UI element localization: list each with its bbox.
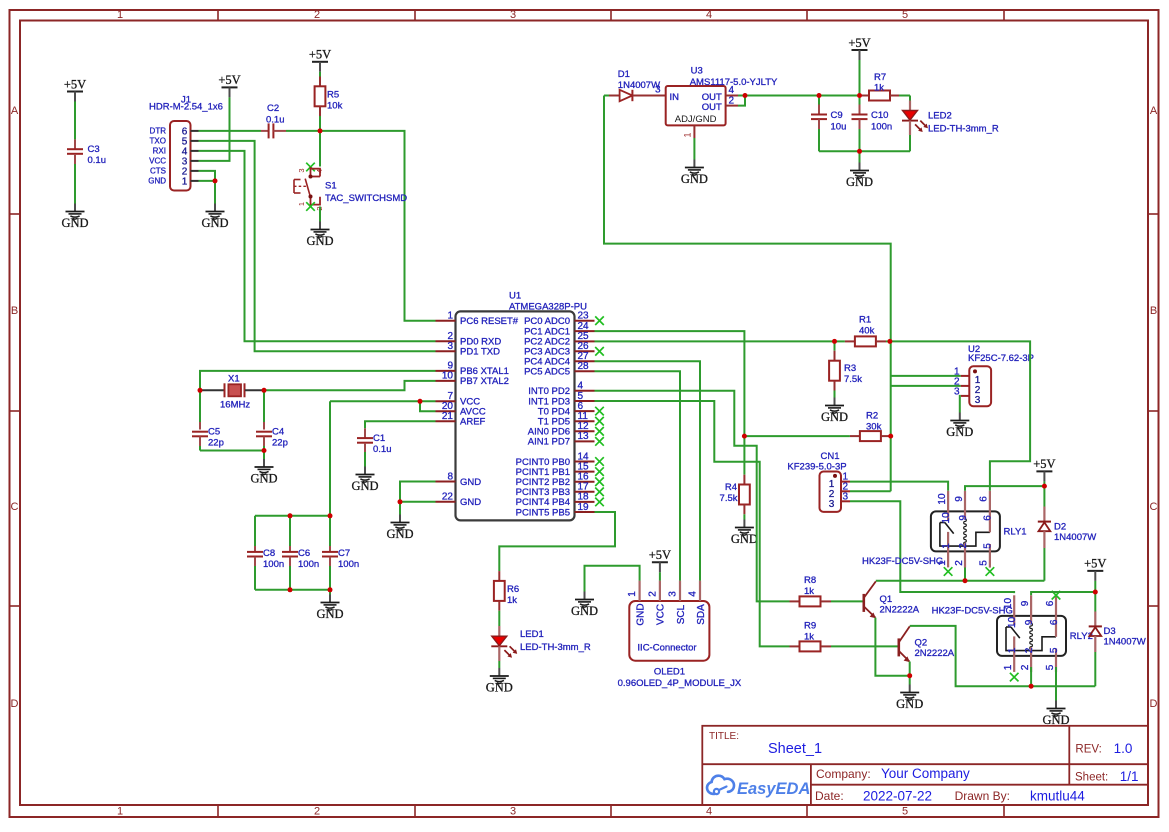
svg-text:3: 3 bbox=[843, 491, 849, 502]
svg-text:D1: D1 bbox=[618, 69, 630, 80]
svg-text:PC6 RESET#: PC6 RESET# bbox=[460, 316, 519, 327]
svg-text:19: 19 bbox=[578, 502, 590, 513]
svg-text:PC0 ADC0: PC0 ADC0 bbox=[524, 316, 570, 327]
svg-text:TITLE:: TITLE: bbox=[709, 731, 739, 742]
svg-text:R9: R9 bbox=[804, 621, 816, 632]
svg-text:3: 3 bbox=[975, 395, 981, 406]
svg-text:HDR-M-2.54_1x6: HDR-M-2.54_1x6 bbox=[149, 102, 223, 113]
svg-text:23: 23 bbox=[578, 311, 590, 322]
svg-text:6: 6 bbox=[979, 496, 990, 502]
svg-text:30k: 30k bbox=[866, 422, 882, 433]
svg-text:9: 9 bbox=[1024, 619, 1035, 625]
svg-text:C3: C3 bbox=[88, 144, 100, 155]
svg-text:IN: IN bbox=[670, 92, 680, 103]
svg-text:2N2222A: 2N2222A bbox=[880, 605, 920, 616]
svg-text:2022-07-22: 2022-07-22 bbox=[863, 789, 932, 804]
svg-text:6: 6 bbox=[1045, 600, 1056, 606]
svg-text:10k: 10k bbox=[327, 101, 343, 112]
svg-text:1: 1 bbox=[297, 202, 306, 206]
svg-text:IIC-Connector: IIC-Connector bbox=[637, 643, 696, 654]
svg-text:5: 5 bbox=[983, 543, 994, 549]
svg-text:ADJ/GND: ADJ/GND bbox=[675, 114, 717, 125]
svg-text:3: 3 bbox=[447, 341, 453, 352]
svg-text:C2: C2 bbox=[267, 103, 279, 114]
svg-text:3: 3 bbox=[667, 591, 678, 597]
svg-text:C4: C4 bbox=[272, 427, 284, 438]
svg-text:HK23F-DC5V-SHG: HK23F-DC5V-SHG bbox=[862, 556, 943, 567]
svg-text:9: 9 bbox=[958, 515, 969, 521]
svg-text:1.0: 1.0 bbox=[1114, 741, 1133, 756]
svg-text:5: 5 bbox=[902, 9, 908, 21]
svg-text:+5V: +5V bbox=[1084, 557, 1106, 571]
svg-text:DTR: DTR bbox=[150, 127, 167, 136]
svg-text:CTS: CTS bbox=[150, 167, 166, 176]
svg-text:Sheet:: Sheet: bbox=[1075, 772, 1108, 784]
svg-text:GND: GND bbox=[571, 604, 598, 618]
svg-text:Date:: Date: bbox=[815, 789, 844, 803]
svg-text:R8: R8 bbox=[804, 575, 816, 586]
svg-text:1: 1 bbox=[182, 176, 188, 187]
svg-text:2: 2 bbox=[958, 543, 969, 549]
svg-text:1: 1 bbox=[1003, 664, 1014, 670]
svg-text:LED1: LED1 bbox=[520, 629, 544, 640]
svg-text:C: C bbox=[1150, 501, 1158, 513]
svg-text:HK23F-DC5V-SHG: HK23F-DC5V-SHG bbox=[932, 606, 1013, 617]
svg-text:4: 4 bbox=[687, 591, 698, 597]
svg-text:PB7 XTAL2: PB7 XTAL2 bbox=[460, 376, 509, 387]
svg-text:5: 5 bbox=[1045, 664, 1056, 670]
svg-text:3: 3 bbox=[655, 85, 661, 96]
svg-text:U1: U1 bbox=[509, 291, 521, 302]
svg-text:2N2222A: 2N2222A bbox=[915, 648, 955, 659]
svg-text:0.1u: 0.1u bbox=[373, 444, 392, 455]
svg-text:1: 1 bbox=[941, 543, 952, 549]
svg-text:S1: S1 bbox=[325, 181, 337, 192]
svg-text:GND: GND bbox=[681, 172, 708, 186]
svg-text:100n: 100n bbox=[263, 559, 284, 570]
svg-text:1k: 1k bbox=[507, 595, 517, 606]
svg-text:+5V: +5V bbox=[1033, 457, 1055, 471]
svg-text:SDA: SDA bbox=[696, 604, 707, 625]
svg-text:9: 9 bbox=[1020, 600, 1031, 606]
svg-text:OUT: OUT bbox=[702, 102, 722, 113]
svg-text:REV:: REV: bbox=[1075, 744, 1101, 756]
svg-text:4: 4 bbox=[315, 169, 324, 173]
svg-text:10: 10 bbox=[937, 493, 948, 505]
svg-text:VCC: VCC bbox=[656, 604, 667, 625]
svg-text:R6: R6 bbox=[507, 584, 519, 595]
svg-text:100n: 100n bbox=[338, 559, 359, 570]
svg-text:Drawn By:: Drawn By: bbox=[955, 789, 1010, 803]
svg-text:1k: 1k bbox=[874, 83, 884, 94]
svg-text:+5V: +5V bbox=[64, 77, 86, 91]
svg-text:5: 5 bbox=[902, 806, 908, 818]
svg-text:28: 28 bbox=[578, 361, 590, 372]
svg-text:OLED1: OLED1 bbox=[654, 667, 685, 678]
svg-text:6: 6 bbox=[983, 515, 994, 521]
svg-text:GND: GND bbox=[460, 497, 481, 508]
svg-text:5: 5 bbox=[1049, 647, 1060, 653]
svg-text:R4: R4 bbox=[725, 482, 737, 493]
svg-text:10: 10 bbox=[442, 371, 454, 382]
svg-text:0.1u: 0.1u bbox=[88, 155, 107, 166]
svg-text:1N4007W: 1N4007W bbox=[618, 80, 660, 91]
svg-text:Company:: Company: bbox=[816, 767, 871, 781]
svg-text:10: 10 bbox=[941, 512, 952, 524]
svg-text:100n: 100n bbox=[298, 559, 319, 570]
svg-text:C5: C5 bbox=[208, 427, 220, 438]
svg-text:GND: GND bbox=[731, 532, 758, 546]
svg-text:TAC_SWITCHSMD: TAC_SWITCHSMD bbox=[325, 193, 407, 204]
svg-text:AIN1 PD7: AIN1 PD7 bbox=[528, 437, 570, 448]
svg-text:A: A bbox=[11, 105, 19, 117]
svg-text:GND: GND bbox=[148, 177, 166, 186]
svg-text:TXO: TXO bbox=[150, 137, 166, 146]
svg-text:D2: D2 bbox=[1054, 522, 1066, 533]
svg-text:+5V: +5V bbox=[649, 548, 671, 562]
svg-text:EasyEDA: EasyEDA bbox=[737, 780, 810, 798]
svg-text:C6: C6 bbox=[298, 548, 310, 559]
svg-text:100n: 100n bbox=[871, 122, 892, 133]
svg-text:1: 1 bbox=[117, 806, 123, 818]
svg-text:1: 1 bbox=[627, 591, 638, 597]
svg-text:KF239-5.0-3P: KF239-5.0-3P bbox=[787, 461, 846, 472]
svg-text:GND: GND bbox=[896, 697, 923, 711]
svg-text:Your Company: Your Company bbox=[881, 766, 970, 781]
svg-text:C9: C9 bbox=[831, 110, 843, 121]
svg-text:21: 21 bbox=[442, 411, 454, 422]
svg-text:4: 4 bbox=[706, 9, 712, 21]
svg-text:2: 2 bbox=[1024, 647, 1035, 653]
svg-text:U3: U3 bbox=[691, 66, 703, 77]
svg-text:2: 2 bbox=[647, 591, 658, 597]
svg-text:PC5 ADC5: PC5 ADC5 bbox=[524, 367, 570, 378]
svg-text:+5V: +5V bbox=[309, 48, 331, 62]
svg-text:1k: 1k bbox=[804, 632, 814, 643]
svg-text:C7: C7 bbox=[338, 548, 350, 559]
svg-text:SCL: SCL bbox=[676, 604, 687, 624]
svg-text:R3: R3 bbox=[844, 363, 856, 374]
svg-text:VCC: VCC bbox=[149, 157, 166, 166]
svg-text:7.5k: 7.5k bbox=[844, 374, 862, 385]
svg-text:D3: D3 bbox=[1104, 626, 1116, 637]
svg-text:16MHz: 16MHz bbox=[220, 400, 250, 411]
svg-text:KF25C-7.62-3P: KF25C-7.62-3P bbox=[968, 353, 1034, 364]
svg-text:1N4007W: 1N4007W bbox=[1054, 532, 1096, 543]
svg-text:GND: GND bbox=[306, 234, 333, 248]
svg-text:7.5k: 7.5k bbox=[720, 493, 738, 504]
svg-text:RLY1: RLY1 bbox=[1004, 527, 1027, 538]
svg-text:3: 3 bbox=[829, 499, 835, 510]
svg-text:40k: 40k bbox=[859, 326, 875, 337]
svg-text:1: 1 bbox=[683, 132, 693, 137]
svg-text:1N4007W: 1N4007W bbox=[1104, 637, 1146, 648]
svg-text:GND: GND bbox=[386, 527, 413, 541]
svg-text:LED2: LED2 bbox=[928, 111, 952, 122]
svg-text:4: 4 bbox=[729, 85, 735, 96]
svg-text:2: 2 bbox=[954, 560, 965, 566]
svg-text:22p: 22p bbox=[208, 438, 224, 449]
svg-text:C1: C1 bbox=[373, 433, 385, 444]
svg-text:10u: 10u bbox=[831, 122, 847, 133]
svg-text:R7: R7 bbox=[874, 72, 886, 83]
svg-text:Q2: Q2 bbox=[915, 638, 928, 649]
svg-text:0.96OLED_4P_MODULE_JX: 0.96OLED_4P_MODULE_JX bbox=[618, 678, 742, 689]
svg-text:+5V: +5V bbox=[848, 36, 870, 50]
svg-text:13: 13 bbox=[578, 431, 590, 442]
svg-text:3: 3 bbox=[510, 9, 516, 21]
svg-text:GND: GND bbox=[316, 607, 343, 621]
svg-text:GND: GND bbox=[635, 603, 646, 625]
svg-text:5: 5 bbox=[979, 560, 990, 566]
svg-text:GND: GND bbox=[351, 479, 378, 493]
svg-text:D: D bbox=[1150, 698, 1158, 710]
svg-text:2: 2 bbox=[314, 9, 320, 21]
svg-text:22: 22 bbox=[442, 492, 454, 503]
svg-text:C: C bbox=[11, 501, 19, 513]
svg-text:GND: GND bbox=[946, 425, 973, 439]
svg-text:22p: 22p bbox=[272, 438, 288, 449]
svg-text:8: 8 bbox=[447, 471, 453, 482]
svg-text:A: A bbox=[1150, 105, 1158, 117]
svg-text:2: 2 bbox=[314, 806, 320, 818]
svg-text:ATMEGA328P-PU: ATMEGA328P-PU bbox=[509, 301, 587, 312]
svg-text:AREF: AREF bbox=[460, 417, 486, 428]
svg-text:3: 3 bbox=[510, 806, 516, 818]
svg-text:PD1 TXD: PD1 TXD bbox=[460, 347, 500, 358]
svg-text:10: 10 bbox=[1007, 616, 1018, 628]
svg-text:R5: R5 bbox=[327, 90, 339, 101]
svg-text:0.1u: 0.1u bbox=[266, 115, 285, 126]
svg-text:R1: R1 bbox=[859, 315, 871, 326]
svg-text:LED-TH-3mm_R: LED-TH-3mm_R bbox=[928, 124, 999, 135]
svg-text:GND: GND bbox=[61, 216, 88, 230]
svg-text:GND: GND bbox=[201, 216, 228, 230]
svg-text:1: 1 bbox=[117, 9, 123, 21]
svg-text:D: D bbox=[11, 698, 19, 710]
svg-text:4: 4 bbox=[706, 806, 712, 818]
svg-text:2: 2 bbox=[1020, 664, 1031, 670]
svg-text:R2: R2 bbox=[866, 411, 878, 422]
svg-text:+5V: +5V bbox=[218, 73, 240, 87]
svg-text:kmutlu44: kmutlu44 bbox=[1030, 789, 1085, 804]
svg-text:GND: GND bbox=[821, 410, 848, 424]
svg-text:1/1: 1/1 bbox=[1120, 769, 1139, 784]
svg-text:GND: GND bbox=[250, 472, 277, 486]
svg-text:6: 6 bbox=[1049, 619, 1060, 625]
svg-text:GND: GND bbox=[486, 681, 513, 695]
svg-text:Q1: Q1 bbox=[880, 594, 893, 605]
svg-text:GND: GND bbox=[460, 477, 481, 488]
svg-text:B: B bbox=[1150, 305, 1157, 317]
svg-text:PCINT5 PB5: PCINT5 PB5 bbox=[516, 507, 570, 518]
svg-text:C8: C8 bbox=[263, 548, 275, 559]
svg-text:C10: C10 bbox=[871, 110, 888, 121]
svg-text:Sheet_1: Sheet_1 bbox=[768, 741, 822, 757]
svg-text:1: 1 bbox=[1007, 647, 1018, 653]
svg-text:LED-TH-3mm_R: LED-TH-3mm_R bbox=[520, 642, 591, 653]
svg-text:GND: GND bbox=[846, 175, 873, 189]
svg-text:3: 3 bbox=[297, 168, 306, 172]
svg-text:X1: X1 bbox=[228, 374, 240, 385]
svg-text:9: 9 bbox=[954, 496, 965, 502]
svg-text:1: 1 bbox=[447, 311, 453, 322]
svg-text:RXI: RXI bbox=[153, 147, 166, 156]
svg-text:B: B bbox=[11, 305, 18, 317]
svg-text:1k: 1k bbox=[804, 586, 814, 597]
